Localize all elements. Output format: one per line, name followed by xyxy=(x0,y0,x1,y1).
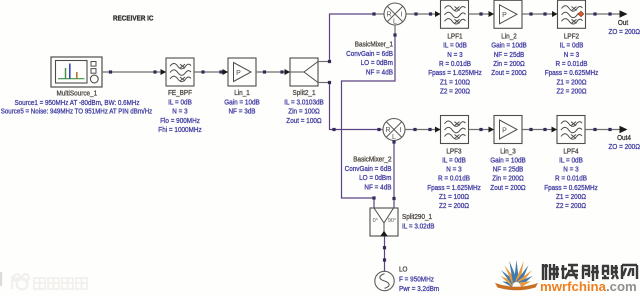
node n1 xyxy=(109,70,112,73)
svg-text:Fpass = 1.625MHz: Fpass = 1.625MHz xyxy=(427,185,481,192)
svg-text:ConvGain = 6dB: ConvGain = 6dB xyxy=(346,51,393,58)
filter LPF4 xyxy=(557,116,585,144)
node n9 xyxy=(429,12,432,15)
mixer BasicMixer_2 xyxy=(383,119,405,141)
Split290_1 labels xyxy=(402,214,435,230)
svg-text:FE_BPF: FE_BPF xyxy=(168,90,192,97)
node n15 xyxy=(413,128,416,131)
svg-text:Zout = 100Ω: Zout = 100Ω xyxy=(286,118,321,125)
output arrow Out xyxy=(620,10,628,18)
node n19 xyxy=(543,128,546,131)
svg-text:IL = 3.02dB: IL = 3.02dB xyxy=(402,223,435,230)
logo fan icon mwrfchina xyxy=(495,260,538,290)
node n6 xyxy=(280,70,283,73)
node n13 xyxy=(593,12,596,15)
source MultiSource_1 xyxy=(51,57,102,87)
amplifier Lin_2 xyxy=(494,0,522,28)
svg-text:BasicMixer_1: BasicMixer_1 xyxy=(355,42,393,49)
Lin_3 labels xyxy=(490,148,526,191)
svg-text:Zin = 200Ω: Zin = 200Ω xyxy=(493,61,525,68)
svg-text:Fpass = 0.625MHz: Fpass = 0.625MHz xyxy=(545,70,599,77)
node n17 xyxy=(479,128,482,131)
LO labels xyxy=(399,267,439,293)
svg-text:Z2 = 200Ω: Z2 = 200Ω xyxy=(556,88,586,95)
pin arrow Split2_1 input xyxy=(285,69,291,75)
svg-text:Out: Out xyxy=(618,20,628,27)
svg-text:IL = 0dB: IL = 0dB xyxy=(168,99,192,106)
node n14 xyxy=(608,12,611,15)
svg-text:ZO = 200Ω: ZO = 200Ω xyxy=(609,29,640,36)
svg-text:LPF1: LPF1 xyxy=(447,34,462,41)
svg-text:Lin_1: Lin_1 xyxy=(234,90,250,97)
node n16 xyxy=(428,128,431,131)
svg-text:Out4: Out4 xyxy=(617,135,631,142)
svg-text:IL = 0dB: IL = 0dB xyxy=(560,43,584,50)
svg-text:I: I xyxy=(401,12,403,19)
node n21 xyxy=(608,128,611,131)
pin arrow LPF1 input xyxy=(435,11,441,17)
node mixer2 RF xyxy=(377,128,380,131)
svg-text:LPF3: LPF3 xyxy=(446,148,461,155)
svg-text:R = 0.01dB: R = 0.01dB xyxy=(556,61,588,68)
wire Split2_1 out1 to BasicMixer_1 xyxy=(318,14,384,62)
amplifier Lin_1 xyxy=(228,58,256,86)
node n7 xyxy=(332,128,335,131)
node mixer2 LO xyxy=(392,140,395,143)
svg-text:NF = 25dB: NF = 25dB xyxy=(494,52,525,59)
pin arrow Lin_2 input xyxy=(489,11,495,17)
node split290 out1 xyxy=(372,196,375,199)
svg-text:LPF2: LPF2 xyxy=(564,34,579,41)
svg-text:F = 950MHz: F = 950MHz xyxy=(399,276,434,283)
svg-text:IL = 3.0103dB: IL = 3.0103dB xyxy=(284,99,324,106)
svg-text:LO = 0dBm: LO = 0dBm xyxy=(359,175,392,182)
wire BasicMixer_2 to LPF3 xyxy=(405,129,441,131)
svg-text:Z2 = 200Ω: Z2 = 200Ω xyxy=(556,203,586,210)
svg-text:P: P xyxy=(502,12,507,19)
MultiSource_1 labels xyxy=(1,91,153,116)
pin arrow LPF2 input xyxy=(552,11,558,17)
watermark text bottom-left xyxy=(34,278,87,289)
node n4 xyxy=(219,70,222,73)
svg-text:Z1 = 100Ω: Z1 = 100Ω xyxy=(440,79,470,86)
svg-text:N = 3: N = 3 xyxy=(172,109,187,116)
BasicMixer_2 labels xyxy=(345,157,392,192)
probe marker on LPF2 output xyxy=(578,11,583,16)
amplifier Lin_3 xyxy=(494,116,522,144)
splitter Split2_1 xyxy=(290,58,318,86)
svg-text:mwrfchina.com: mwrfchina.com xyxy=(540,279,637,294)
wire LPF4 to Out4 xyxy=(585,129,621,131)
svg-text:LPF4: LPF4 xyxy=(563,148,578,155)
watermark edge mark bottom-left xyxy=(0,272,2,286)
mixer BasicMixer_1 xyxy=(384,3,406,25)
node n20 xyxy=(593,128,596,131)
wire LPF1 to Lin_2 xyxy=(469,13,495,15)
svg-text:ZO = 200Ω: ZO = 200Ω xyxy=(609,144,640,151)
svg-text:BasicMixer_2: BasicMixer_2 xyxy=(353,157,391,164)
wire FE_BPF to Lin_1 xyxy=(194,71,228,73)
svg-text:Source5 = Noise: 949MHz TO 951: Source5 = Noise: 949MHz TO 951MHz AT PIN… xyxy=(1,108,153,115)
output arrow Out4 xyxy=(620,126,628,134)
node n3 xyxy=(201,70,204,73)
pin arrow Lin_3 input xyxy=(489,127,495,133)
svg-text:L: L xyxy=(392,134,396,141)
LPF2 labels xyxy=(545,34,599,96)
wire BasicMixer_1 to LPF1 xyxy=(406,13,441,15)
node n12 xyxy=(543,12,546,15)
wire BasicMixer_2 LO xyxy=(393,141,395,209)
LPF1 labels xyxy=(428,34,482,96)
svg-text:N = 3: N = 3 xyxy=(446,167,461,174)
svg-text:Split290_1: Split290_1 xyxy=(402,214,432,221)
wire LPF2 to Out xyxy=(586,13,621,15)
filter LPF3 xyxy=(441,116,469,144)
svg-text:Z1 = 200Ω: Z1 = 200Ω xyxy=(556,79,586,86)
svg-text:R: R xyxy=(386,12,391,19)
svg-text:NF = 3dB: NF = 3dB xyxy=(228,109,255,116)
svg-text:Lin_3: Lin_3 xyxy=(500,148,516,155)
svg-text:N = 3: N = 3 xyxy=(564,52,579,59)
node split out2 corner xyxy=(328,81,331,84)
svg-text:Zout = 200Ω: Zout = 200Ω xyxy=(490,185,525,192)
node n11 xyxy=(529,12,532,15)
node mixer1 LO xyxy=(393,33,396,36)
svg-text:Zin = 200Ω: Zin = 200Ω xyxy=(492,176,524,183)
svg-text:Z1 = 200Ω: Z1 = 200Ω xyxy=(556,194,586,201)
svg-text:L: L xyxy=(393,18,397,25)
BasicMixer_1 labels xyxy=(346,42,393,77)
svg-text:LO = 0dBm: LO = 0dBm xyxy=(361,60,394,67)
svg-text:Source1 = 950MHz AT -80dBm, BW: Source1 = 950MHz AT -80dBm, BW: 0.6MHz xyxy=(15,100,140,107)
svg-text:MultiSource_1: MultiSource_1 xyxy=(56,91,97,98)
svg-text:R = 0.01dB: R = 0.01dB xyxy=(438,176,470,183)
svg-text:Gain = 10dB: Gain = 10dB xyxy=(491,43,527,50)
wire BasicMixer_1 LO xyxy=(342,25,396,208)
svg-text:Fhi = 1000MHz: Fhi = 1000MHz xyxy=(158,127,202,134)
node split out1 corner xyxy=(328,60,331,63)
svg-text:R = 0.01dB: R = 0.01dB xyxy=(555,176,587,183)
filter LPF1 xyxy=(441,0,469,28)
node n8 xyxy=(414,12,417,15)
wire LO to Split290_1 xyxy=(384,237,386,272)
node split290 out2 xyxy=(392,197,395,200)
LPF3 labels xyxy=(427,148,481,210)
svg-text:R = 0.01dB: R = 0.01dB xyxy=(439,61,471,68)
watermark logo bottom-left xyxy=(12,274,29,289)
svg-text:Z1 = 100Ω: Z1 = 100Ω xyxy=(439,194,469,201)
pin arrow LPF4 input xyxy=(552,127,558,133)
pin arrow Lin_1 input xyxy=(223,69,229,75)
wire Lin_1 to Split2_1 xyxy=(256,71,290,73)
wire Lin_2 to LPF2 xyxy=(522,13,558,15)
node n5 xyxy=(263,70,266,73)
svg-text:Z2 = 200Ω: Z2 = 200Ω xyxy=(440,88,470,95)
svg-text:Z2 = 200Ω: Z2 = 200Ω xyxy=(439,203,469,210)
pin arrow FE_BPF input xyxy=(161,69,167,75)
svg-text:Pwr = 3.2dBm: Pwr = 3.2dBm xyxy=(399,286,439,293)
svg-text:Zout = 200Ω: Zout = 200Ω xyxy=(491,70,526,77)
svg-text:IL = 0dB: IL = 0dB xyxy=(443,43,467,50)
LPF4 labels xyxy=(544,148,598,210)
filter FE_BPF xyxy=(166,58,194,86)
svg-text:N = 3: N = 3 xyxy=(563,167,578,174)
Lin_1 labels xyxy=(224,90,260,116)
svg-text:P: P xyxy=(502,127,507,134)
node n2 xyxy=(153,70,156,73)
node n23 xyxy=(383,258,386,261)
node n22 xyxy=(383,246,386,249)
svg-text:NF = 4dB: NF = 4dB xyxy=(366,70,393,77)
svg-text:0°: 0° xyxy=(373,218,378,224)
FE_BPF labels xyxy=(158,90,202,134)
node n10 xyxy=(479,12,482,15)
wire Split2_1 out2 to BasicMixer_2 xyxy=(318,83,383,130)
svg-text:N = 3: N = 3 xyxy=(447,52,462,59)
svg-text:P: P xyxy=(236,70,241,77)
svg-text:Fpass = 0.625MHz: Fpass = 0.625MHz xyxy=(544,185,598,192)
node mixer1 RF xyxy=(372,12,375,15)
svg-text:IL = 0dB: IL = 0dB xyxy=(559,158,583,165)
wire LPF3 to Lin_3 xyxy=(469,129,495,131)
svg-text:Split2_1: Split2_1 xyxy=(293,90,316,97)
wire MultiSource_1 to FE_BPF xyxy=(102,71,166,73)
pin arrow LPF3 input xyxy=(435,127,441,133)
svg-text:Gain = 10dB: Gain = 10dB xyxy=(490,158,526,165)
Split2_1 labels xyxy=(284,90,324,125)
svg-text:ConvGain = 6dB: ConvGain = 6dB xyxy=(345,166,392,173)
filter LPF2 xyxy=(558,0,586,28)
svg-text:Zin = 100Ω: Zin = 100Ω xyxy=(288,109,320,116)
logo text wbsp (CJK strokes) xyxy=(543,264,637,281)
svg-text:LO: LO xyxy=(399,267,408,274)
svg-text:Lin_2: Lin_2 xyxy=(501,34,517,41)
svg-text:Gain = 10dB: Gain = 10dB xyxy=(224,99,260,106)
svg-text:90°: 90° xyxy=(388,218,396,224)
svg-text:NF = 4dB: NF = 4dB xyxy=(364,185,391,192)
Lin_2 labels xyxy=(491,34,527,78)
splitter Split290_1 xyxy=(370,208,398,236)
oscillator LO xyxy=(375,271,394,290)
svg-text:R: R xyxy=(385,127,390,134)
svg-text:IL = 0dB: IL = 0dB xyxy=(442,158,466,165)
svg-text:NF = 25dB: NF = 25dB xyxy=(493,167,524,174)
svg-text:I: I xyxy=(400,127,402,134)
svg-text:RECEIVER IC: RECEIVER IC xyxy=(113,13,154,22)
node n18 xyxy=(529,128,532,131)
wire Lin_3 to LPF4 xyxy=(522,129,557,131)
svg-text:Fpass = 1.625MHz: Fpass = 1.625MHz xyxy=(428,70,482,77)
svg-text:Flo = 900MHz: Flo = 900MHz xyxy=(160,118,200,125)
